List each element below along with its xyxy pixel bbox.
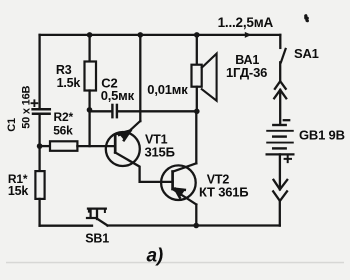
svg-text:50 x 16В: 50 x 16В <box>20 85 32 128</box>
svg-text:56k: 56k <box>53 123 73 137</box>
svg-text:0,01мк: 0,01мк <box>147 82 188 97</box>
svg-text:315Б: 315Б <box>145 144 175 159</box>
svg-text:R2*: R2* <box>54 110 74 124</box>
svg-text:GB1 9В: GB1 9В <box>299 127 345 142</box>
svg-text:1...2,5мА: 1...2,5мА <box>218 15 274 30</box>
svg-text:15k: 15k <box>8 184 29 198</box>
svg-text:SA1: SA1 <box>294 46 319 61</box>
svg-text:а): а) <box>147 246 164 267</box>
svg-text:КТ 361Б: КТ 361Б <box>199 185 248 200</box>
svg-text:R3: R3 <box>56 63 72 77</box>
svg-text:1.5k: 1.5k <box>57 76 81 90</box>
svg-text:1ГД-36: 1ГД-36 <box>226 65 267 80</box>
svg-text:0,5мк: 0,5мк <box>101 88 135 103</box>
svg-text:C1: C1 <box>6 118 18 132</box>
svg-text:SB1: SB1 <box>85 232 109 246</box>
